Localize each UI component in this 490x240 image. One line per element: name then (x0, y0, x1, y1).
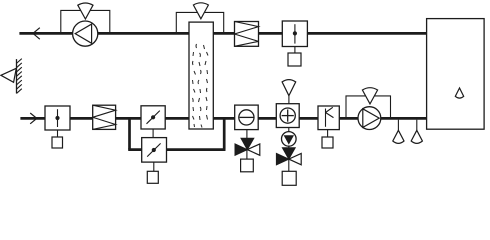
wire sensor bracket over supply fan (346, 96, 391, 118)
sensor drop with stem above heater (282, 80, 296, 104)
arrow flow right on supply duct (30, 113, 37, 124)
outside air intake louvre at wall (1, 59, 22, 94)
cooler coil (minus) on supply duct (235, 105, 259, 130)
wire sensor bracket over humidifier (176, 12, 223, 33)
sensor drop over humidifier (193, 3, 208, 19)
spray droplets inside humidifier (193, 44, 209, 128)
damper with actuator on supply duct (45, 106, 70, 137)
three-way valve of cooler (235, 138, 260, 159)
frost protection box on supply duct (318, 106, 339, 137)
sensor drop over supply fan (362, 88, 377, 104)
humidifier air washer chamber (189, 22, 213, 129)
damper with actuator on exhaust duct (282, 21, 307, 53)
wire bottom supply duct line (20, 117, 426, 120)
control damper box lower on bypass (142, 138, 167, 172)
wire bypass branch under humidifier (128, 117, 225, 149)
actuator box of heater valve (282, 171, 296, 185)
sensor drop over exhaust fan (78, 3, 93, 19)
actuator box of cooler valve (241, 159, 254, 172)
room temperature sensor drop (455, 88, 463, 98)
wire connector cooler to valve (246, 130, 248, 144)
fan M2 supply fan (358, 107, 381, 130)
duct sensor pendant 1 (393, 120, 404, 144)
fan M1 exhaust fan (73, 21, 98, 46)
arrow flow left on exhaust duct (33, 28, 40, 40)
heater coil (plus) on supply duct (276, 104, 299, 128)
heat exchanger coil F1 on exhaust duct (235, 22, 259, 47)
control damper box upper (preheater control) (141, 106, 165, 138)
wire sensor bracket over exhaust fan (61, 10, 110, 33)
filter F2 on supply duct (93, 105, 116, 129)
room box (427, 19, 485, 130)
actuator box of exhaust damper (288, 53, 301, 66)
circulating pump below heater (282, 128, 297, 147)
actuator box of bypass damper (147, 171, 158, 183)
wire top exhaust duct line (19, 32, 426, 35)
actuator box of supply damper (52, 137, 63, 148)
duct sensor pendant 2 (411, 120, 422, 144)
three-way valve of heater (276, 146, 301, 171)
actuator box of frost protection (322, 137, 333, 148)
